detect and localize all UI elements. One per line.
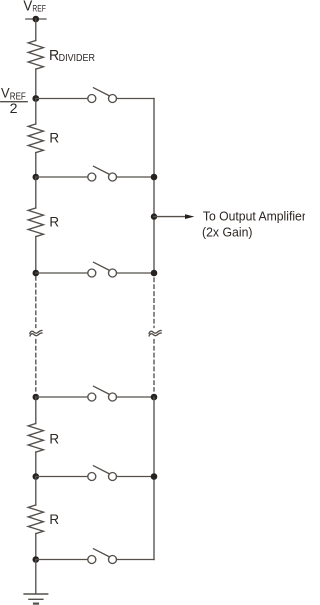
svg-text:REF: REF: [32, 4, 46, 14]
wire right rail dashed continuation lower: [153, 340, 155, 392]
switch SW3: [88, 269, 96, 277]
resistor R3: [28, 424, 43, 453]
wire right rail dashed continuation upper: [153, 278, 155, 328]
switch SW4: [88, 393, 96, 401]
node E junction dot: [33, 473, 40, 480]
break symbol right rail: [149, 330, 161, 333]
wire node D to R3: [35, 397, 37, 424]
junction dot right rail row C: [151, 270, 158, 277]
node D junction dot: [33, 394, 40, 401]
svg-text:R: R: [49, 131, 59, 147]
wire node B to R2: [35, 177, 37, 208]
svg-text:V: V: [23, 0, 32, 15]
switch SW5: [88, 473, 96, 481]
node VREF label: [23, 0, 46, 15]
node VREF/2 label: [1, 86, 26, 117]
label RDIVIDER: [49, 47, 95, 64]
wire switch SW4 to right rail: [117, 396, 155, 398]
wire R2 to node C: [35, 237, 37, 273]
node B junction dot: [33, 174, 40, 181]
fraction bar of VREF/2 label: [1, 101, 28, 103]
wire switch SW3 to right rail: [117, 272, 155, 274]
wire right rail top segment: [153, 99, 155, 274]
wire node F to ground: [35, 560, 37, 594]
wire R1 to node B: [35, 153, 37, 177]
wire switch SW2 to right rail: [117, 176, 155, 178]
wire node C to switch SW3: [36, 272, 88, 274]
junction dot right rail row B: [151, 174, 158, 181]
wire left rail dashed continuation lower: [35, 340, 37, 392]
wire output arrow: [154, 216, 186, 218]
ground: [24, 593, 48, 595]
wire switch SW5 to right rail: [117, 476, 155, 478]
wire VREF terminal to RDIVIDER: [35, 19, 37, 41]
wire node VREF/2 to switch SW1: [36, 98, 88, 100]
svg-text:2: 2: [10, 101, 18, 116]
wire node B to switch SW2: [36, 176, 88, 178]
svg-text:(2x Gain): (2x Gain): [202, 224, 253, 239]
wire node E to R4: [35, 477, 37, 506]
wire right rail bottom segment: [153, 397, 155, 560]
label R4 value R: [49, 512, 59, 528]
resistor R1: [28, 124, 43, 153]
switch SW2: [88, 173, 96, 181]
switch SW1: [88, 95, 96, 103]
node F junction dot: [33, 556, 40, 563]
wire switch SW6 to right rail: [117, 559, 155, 561]
wire node F to switch SW6: [36, 559, 88, 561]
VREF terminal junction dot: [33, 16, 40, 23]
wire R3 to node E: [35, 452, 37, 476]
node VREF/2 junction dot: [32, 95, 39, 102]
resistor RDIVIDER: [28, 41, 43, 70]
wire node D to switch SW4: [36, 396, 88, 398]
svg-text:R: R: [49, 431, 59, 447]
node C junction dot: [33, 270, 40, 277]
wire left rail dashed continuation upper: [35, 277, 37, 328]
wire RDIVIDER to node VREF/2: [35, 69, 37, 98]
wire R4 to node F: [35, 534, 37, 560]
resistor R4: [28, 505, 43, 534]
svg-text:To Output Amplifier: To Output Amplifier: [203, 208, 305, 223]
wire node E to switch SW5: [36, 476, 88, 478]
junction dot right rail row D: [151, 394, 158, 401]
break symbol left rail: [30, 330, 42, 333]
resistor R2: [28, 208, 43, 237]
svg-text:R: R: [49, 215, 59, 231]
label R2 value R: [49, 215, 59, 231]
svg-text:R: R: [49, 512, 59, 528]
label R3 value R: [49, 431, 59, 447]
switch SW6: [88, 556, 96, 564]
svg-text:DIVIDER: DIVIDER: [59, 53, 95, 64]
VREF terminal bar: [26, 18, 46, 20]
junction dot output tap: [151, 213, 157, 219]
wire node VREF/2 to R1: [35, 99, 37, 125]
junction dot right rail row E: [151, 473, 158, 480]
label R1 value R: [49, 131, 59, 147]
wire switch SW1 to right rail: [117, 98, 155, 100]
label To Output Amplifier (2x Gain): [202, 208, 307, 239]
